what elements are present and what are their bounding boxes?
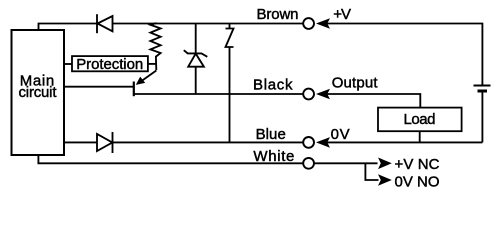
terminal circle Black xyxy=(303,89,314,100)
arrow into Blue (0V) xyxy=(316,137,330,148)
svg-text:0V: 0V xyxy=(331,126,350,143)
+V wire to right rail xyxy=(327,24,482,85)
Output wire to Load xyxy=(327,94,420,108)
surge absorber Z branch xyxy=(229,24,231,29)
Load box xyxy=(378,108,462,132)
arrow 0V NO xyxy=(378,174,392,186)
arrow +V NC xyxy=(378,158,392,170)
diode D2 (bottom) xyxy=(97,132,113,153)
wire: Load bottom to 0V xyxy=(419,131,421,142)
wire: +V rail from diode to Brown terminal xyxy=(113,23,304,25)
terminal circle Blue xyxy=(303,137,314,148)
svg-text:+V NC: +V NC xyxy=(395,156,440,173)
Black output wire from transistor to terminal xyxy=(134,93,303,95)
wire: main circuit to Protection xyxy=(64,63,72,65)
White wire from main circuit bottom to terminal xyxy=(38,155,303,163)
wire: main circuit top stub to +V rail xyxy=(39,24,98,31)
arrow into Black (Output) xyxy=(316,89,330,100)
0V wire to battery bottom xyxy=(327,141,482,143)
svg-text:Blue: Blue xyxy=(256,126,286,143)
terminal circle White xyxy=(303,158,314,169)
White wire after terminal with NC/NO branches xyxy=(314,162,378,164)
svg-text:Black: Black xyxy=(253,77,293,94)
wire: resistor to transistor base arrow (diagonal) xyxy=(141,71,157,82)
svg-text:Brown: Brown xyxy=(257,6,299,23)
transistor base lead from main circuit xyxy=(64,86,134,88)
svg-text:Output: Output xyxy=(332,74,379,91)
Blue wire from main circuit through D2 to terminal xyxy=(64,141,97,143)
svg-text:0V NO: 0V NO xyxy=(395,173,440,190)
diode D1 (top, reverse protection) xyxy=(97,14,113,33)
Main circuit box xyxy=(12,30,65,155)
battery B1 xyxy=(474,85,491,87)
zener diode ZD1 branch xyxy=(195,24,197,54)
zener cathode bar with bent ends xyxy=(184,50,208,57)
svg-text:White: White xyxy=(253,148,294,165)
arrowhead into transistor xyxy=(136,77,145,85)
resistor R1 (zigzag) xyxy=(150,23,160,70)
zener triangle xyxy=(188,54,204,67)
svg-text:Protection: Protection xyxy=(76,56,143,73)
svg-text:circuit: circuit xyxy=(19,84,58,101)
terminal circle Brown xyxy=(303,18,314,29)
svg-text:Load: Load xyxy=(404,111,436,128)
wire: Protection to resistor branch xyxy=(148,63,156,65)
Protection box xyxy=(72,56,148,71)
arrow into Brown (+V) xyxy=(316,18,330,29)
transistor Q1 bar xyxy=(133,82,135,97)
svg-text:+V: +V xyxy=(333,6,351,23)
